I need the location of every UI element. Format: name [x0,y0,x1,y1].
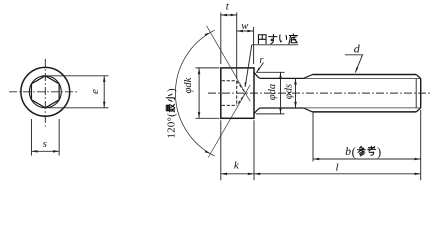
svg-text:l: l [335,162,338,174]
svg-text:r: r [260,55,264,66]
svg-text:φda: φda [267,84,278,100]
svg-text:): ) [165,88,177,92]
svg-text:φdk: φdk [183,77,194,93]
svg-text:): ) [377,145,381,159]
svg-text:k: k [234,160,240,172]
svg-text:d: d [354,42,361,56]
svg-text:(: ( [352,145,356,159]
svg-text:e: e [89,89,101,94]
svg-text:120°(: 120°( [165,113,177,139]
svg-text:t: t [226,0,230,12]
svg-text:w: w [241,21,248,32]
svg-text:s: s [43,138,47,150]
svg-text:φds: φds [284,84,295,99]
svg-text:b: b [345,146,351,158]
